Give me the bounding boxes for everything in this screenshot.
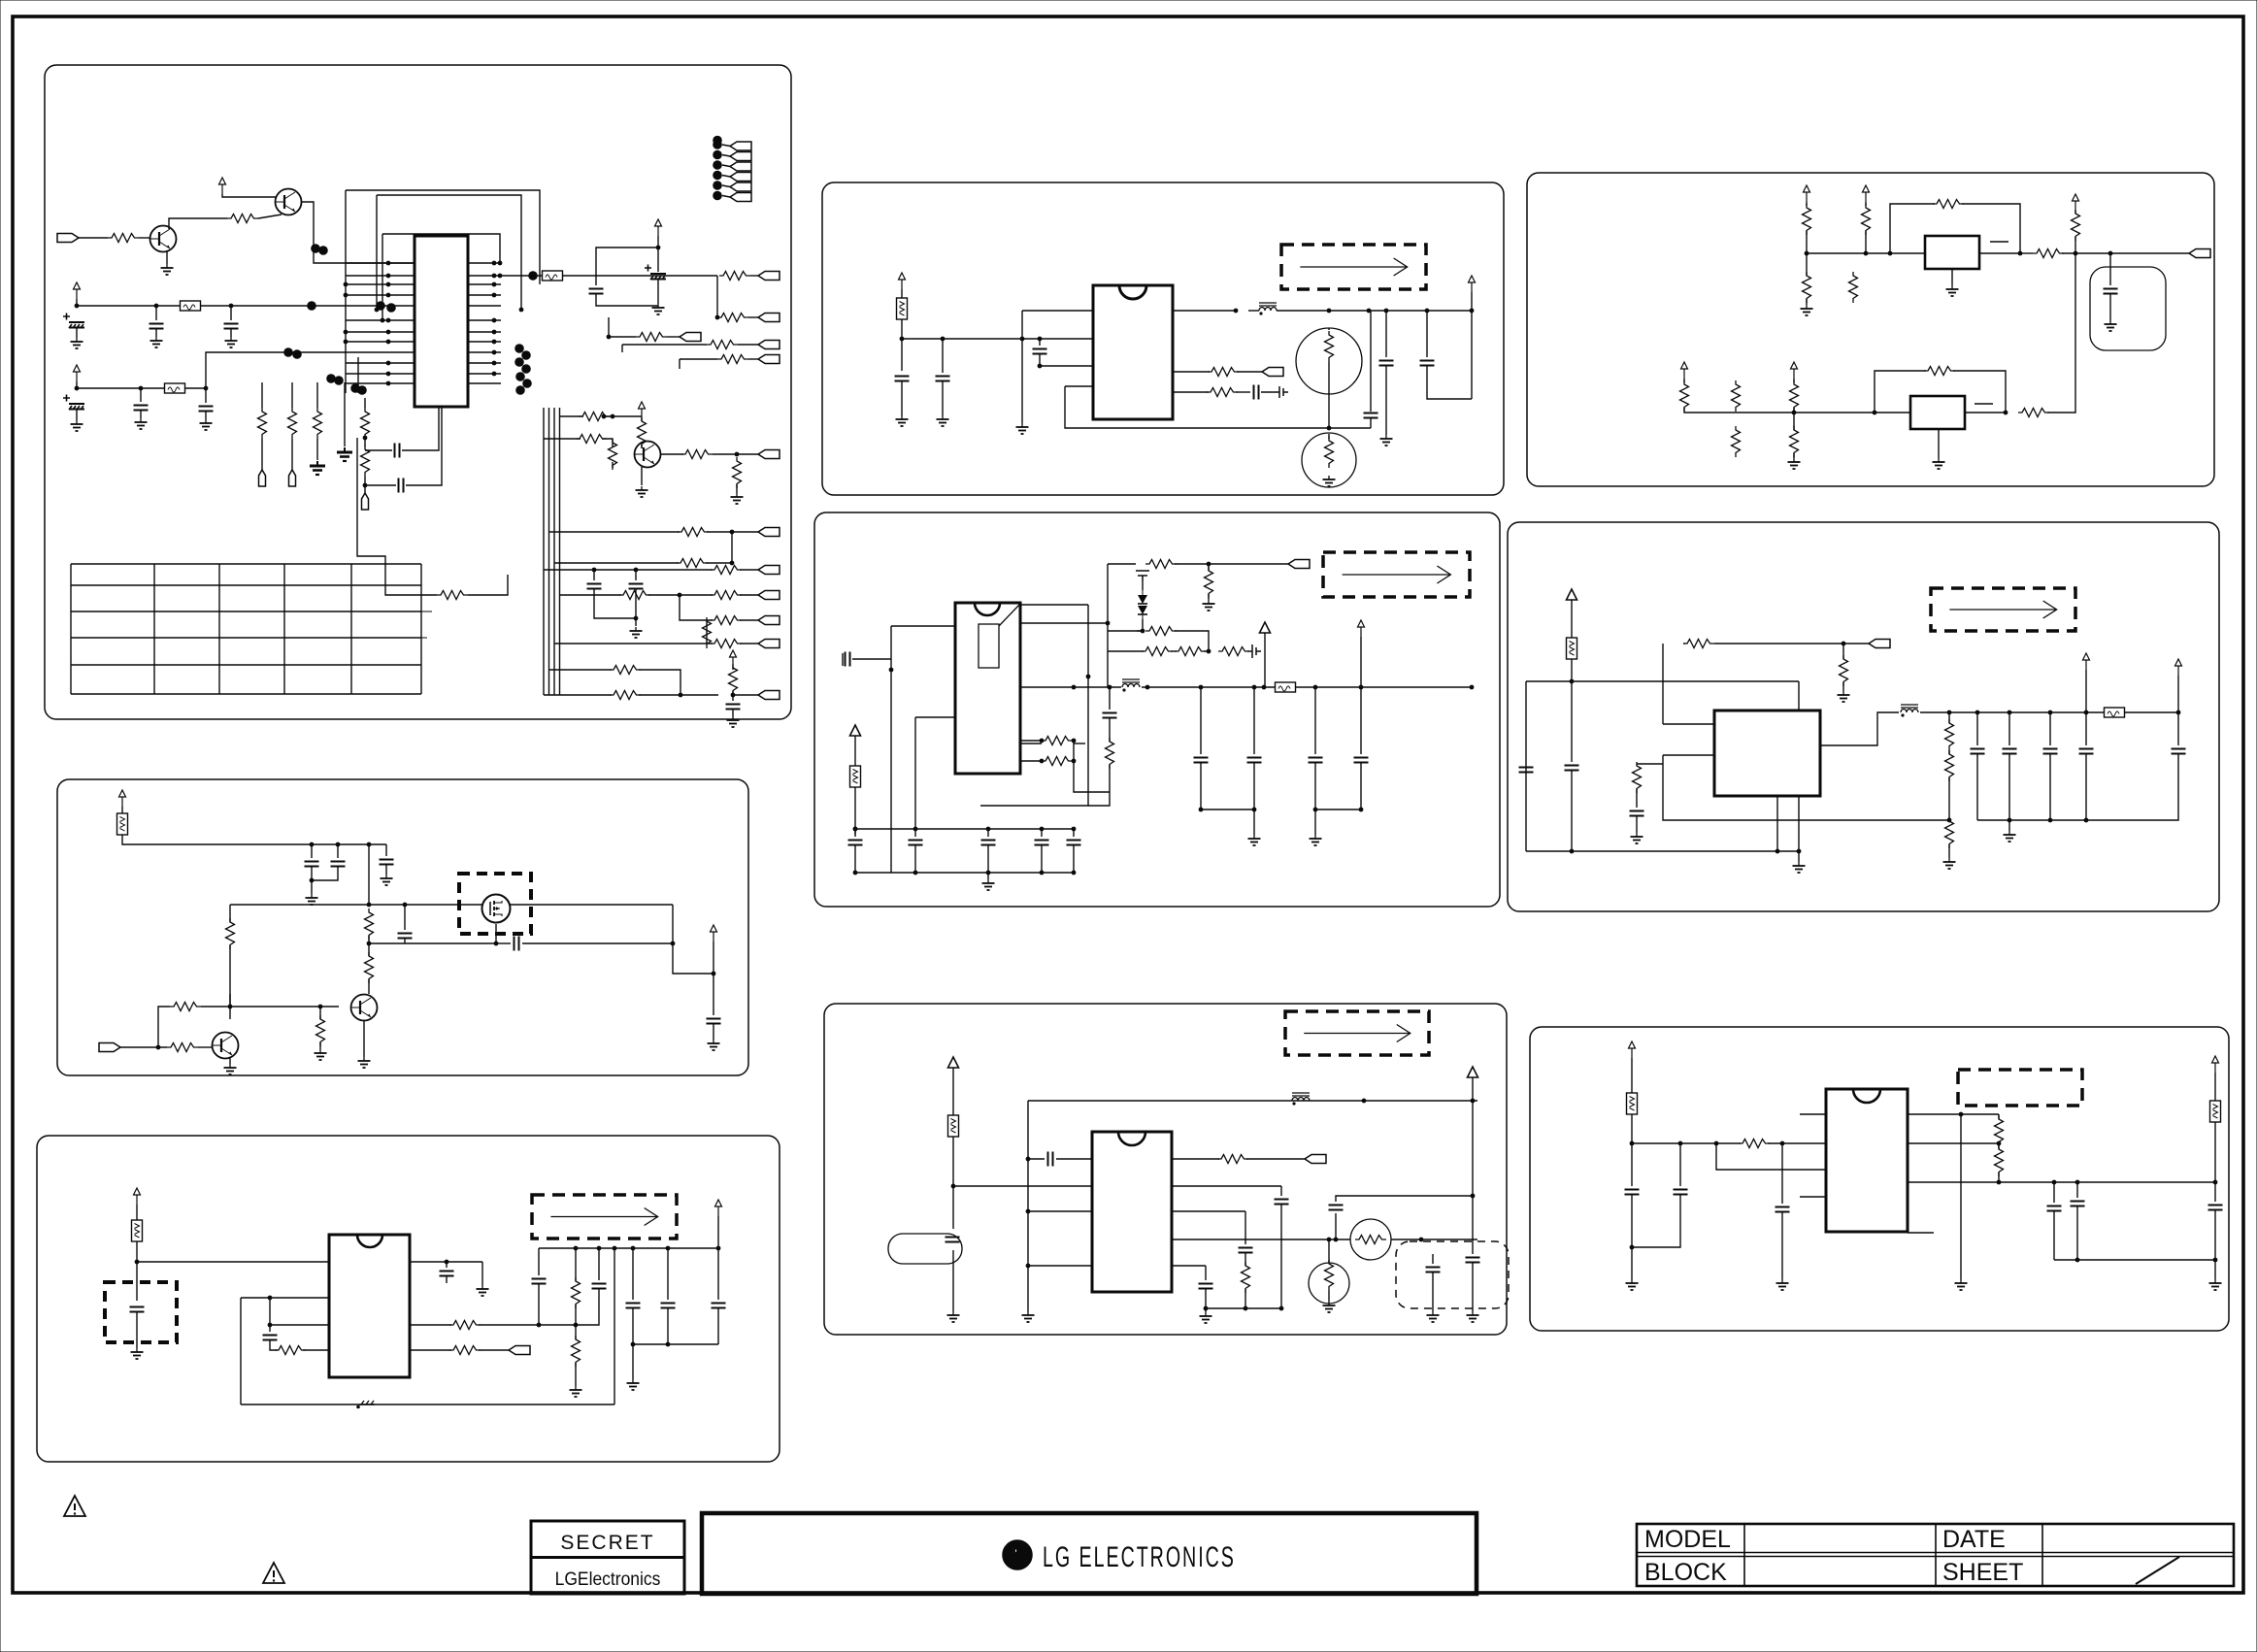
w — [575, 1363, 577, 1386]
wire row548 loop — [731, 532, 733, 563]
U301 tab mark — [1990, 241, 2008, 243]
block 7 outline (LDO section) — [37, 1136, 780, 1462]
ferrite bead FB102 — [165, 383, 185, 393]
junction rail4 x1402 — [1359, 685, 1364, 690]
w — [854, 829, 856, 837]
w — [639, 694, 718, 696]
resistor R111 — [361, 408, 370, 439]
resistor R602 — [365, 952, 374, 983]
junction th802 — [1327, 1238, 1332, 1242]
w — [136, 1312, 138, 1348]
junction pin 8 — [386, 340, 391, 345]
zener diode D401 — [1138, 590, 1147, 619]
junction l2 — [268, 1296, 273, 1301]
w — [1261, 391, 1279, 393]
w — [1109, 718, 1111, 742]
dashed arrow box blk8 — [1285, 1011, 1429, 1055]
w — [481, 1262, 483, 1285]
junction b8 — [951, 1184, 956, 1189]
power arrow VCC4 — [655, 219, 662, 236]
wire bottom loop to R505 — [1663, 764, 1949, 820]
capacitor C802 — [1048, 1152, 1053, 1167]
wire out row b — [1391, 1239, 1477, 1240]
w — [198, 1046, 212, 1048]
wire U101 right pin 24 — [468, 362, 501, 364]
junction lv1 d — [344, 340, 349, 345]
w — [538, 1284, 540, 1325]
w — [1631, 1058, 1633, 1093]
w — [1314, 763, 1316, 809]
junction pin 3 — [386, 274, 391, 279]
junction rail5 x2149 — [2084, 710, 2089, 715]
wire v1516 — [1471, 311, 1473, 399]
w — [667, 1308, 669, 1344]
w — [1385, 311, 1387, 357]
w — [319, 1042, 321, 1049]
wire U201 out — [1173, 310, 1236, 312]
wire R127v — [706, 621, 708, 644]
junction rail4 x1182 — [1145, 685, 1150, 690]
ground R312 — [1788, 458, 1801, 469]
wire R103 tab — [750, 275, 758, 277]
junction c906 — [2213, 1258, 2218, 1263]
w — [1137, 630, 1143, 632]
wire fb up — [158, 1007, 170, 1047]
w — [1571, 613, 1573, 638]
junction row716a — [679, 693, 683, 698]
resistor R304 — [2033, 249, 2064, 258]
w — [1793, 379, 1795, 382]
wire U701 pin l2 — [270, 1297, 329, 1299]
wire rail8 — [1028, 1100, 1477, 1102]
ground at Q101 — [161, 264, 174, 275]
junction blob E4 — [357, 385, 367, 395]
resistor R104 — [717, 314, 748, 322]
w — [736, 484, 738, 493]
junction f401 — [853, 827, 858, 832]
junction array 3 — [713, 160, 722, 170]
capacitor C406 — [1067, 841, 1081, 845]
capacitor C110 — [399, 479, 404, 493]
wire left v8 — [1027, 1101, 1029, 1266]
junction c601 — [310, 878, 315, 883]
w — [575, 1305, 577, 1325]
w — [1631, 1143, 1633, 1186]
junction rail4 x1355 — [1313, 685, 1318, 690]
wire fb2 right — [1953, 371, 2006, 413]
junction b9d — [1780, 1141, 1785, 1146]
IC U701 notch — [357, 1235, 382, 1247]
connector P115 — [730, 193, 751, 202]
ground col355 — [337, 447, 352, 461]
wire left stub vertical — [357, 357, 359, 393]
w — [1432, 1272, 1434, 1311]
w — [1073, 829, 1075, 837]
connector P112 — [730, 162, 751, 171]
junction outa — [1072, 685, 1077, 690]
w — [667, 1248, 669, 1300]
junction rail5 x2070 — [2008, 710, 2012, 715]
resistor R126 — [711, 640, 742, 648]
power arrow VCC20 — [119, 790, 126, 807]
resistor R409 — [1106, 738, 1114, 769]
wire row639 — [680, 595, 713, 620]
wire last cap join — [2086, 754, 2178, 820]
junction lv3 — [381, 318, 385, 323]
power arrow VCC1 — [219, 178, 226, 194]
wire row587a — [544, 569, 621, 571]
junction — [1359, 808, 1364, 812]
resistor R701 — [275, 1346, 306, 1355]
resistor R112 — [361, 446, 370, 477]
capacitor C108 — [589, 289, 604, 294]
inductor L801 — [1292, 1093, 1310, 1106]
junction c905 — [2075, 1258, 2080, 1263]
ground C107 — [652, 304, 665, 314]
capacitor C602 — [331, 862, 346, 867]
junction capb 1073 — [1040, 871, 1045, 876]
w — [1571, 771, 1573, 851]
wire fb to tab — [1714, 643, 1843, 644]
resistor R1 — [1849, 272, 1858, 303]
resistor R106 — [707, 341, 738, 349]
w — [987, 873, 989, 879]
resistor R130 — [729, 664, 738, 695]
power arrow VCC11 — [2073, 194, 2079, 211]
w — [1793, 453, 1795, 458]
wire col301 top — [291, 382, 293, 408]
junction — [1252, 808, 1257, 812]
wire U701 out top — [410, 1261, 482, 1263]
w — [1314, 687, 1316, 754]
w — [732, 691, 734, 695]
wire to U801 — [953, 1185, 1092, 1187]
power arrow VCC12 — [1681, 362, 1688, 379]
ground C205 — [1380, 435, 1393, 446]
w — [2074, 211, 2076, 214]
w — [1865, 202, 1867, 206]
w — [368, 936, 370, 956]
junction rail6 348 — [336, 843, 341, 847]
w — [634, 453, 635, 455]
w — [1781, 1212, 1783, 1279]
wire loop B over U101 — [377, 195, 521, 310]
wire c902 join — [1632, 1195, 1680, 1247]
w — [270, 1340, 278, 1350]
connector P103 — [758, 314, 780, 322]
junction pin dot — [492, 274, 497, 279]
junction blob G — [514, 344, 524, 353]
connector P105 — [758, 341, 780, 349]
wire q602 emitter — [363, 1020, 365, 1057]
junction outr2 — [1419, 1238, 1424, 1242]
w — [2085, 712, 2087, 745]
connector P401 — [1288, 560, 1310, 569]
w — [1948, 844, 1950, 858]
w — [311, 867, 313, 880]
capacitor C102 — [149, 324, 164, 329]
junction array 5 — [713, 181, 722, 190]
svg-text:DATE: DATE — [1942, 1526, 2006, 1553]
w — [2049, 712, 2051, 745]
junction blob G2 — [521, 350, 531, 360]
w — [1253, 809, 1255, 835]
junction r2a — [537, 1323, 542, 1328]
ground Q103 — [636, 486, 648, 497]
capacitor C301 — [2104, 289, 2118, 294]
wire VCC1 to Q102 — [222, 194, 276, 197]
ground C106 — [200, 419, 213, 430]
wire U101 left pin 9 — [346, 362, 415, 364]
junction b9c — [1714, 1141, 1719, 1146]
w — [1472, 1091, 1474, 1101]
w — [1793, 413, 1795, 430]
junction rail4 x1516 — [1470, 685, 1475, 690]
w — [1798, 851, 1800, 862]
junction array 6 — [713, 191, 722, 201]
wire bus v571 — [553, 408, 555, 695]
resistor R503 — [1633, 762, 1642, 793]
wire U801 pin l4 — [1028, 1265, 1092, 1267]
resistor R403 — [1145, 560, 1177, 569]
ground C903 — [1776, 1279, 1789, 1290]
wire U501 gnd2 — [1798, 796, 1800, 851]
resistor R302 — [1862, 204, 1871, 235]
capacitor C901 — [1625, 1190, 1640, 1195]
capacitor C601 — [305, 862, 319, 867]
wire v1141 tap — [1108, 630, 1143, 632]
svg-text:SECRET: SECRET — [560, 1532, 654, 1554]
wire capb rail2 — [1315, 809, 1361, 810]
capacitor C111 — [587, 584, 602, 589]
junction rail9o 2140 — [2075, 1180, 2080, 1185]
regulator U301 body — [1925, 236, 1979, 269]
junction pin dot — [492, 350, 497, 355]
power arrow VCC10 — [1863, 185, 1870, 202]
junction l8a — [1026, 1157, 1031, 1162]
w — [1998, 1142, 2000, 1143]
power arrow VCC16 — [1358, 620, 1365, 637]
capacitor C906 — [2208, 1206, 2223, 1210]
power arrow VCC7 — [899, 273, 906, 289]
wire U101 right pin 21 — [468, 331, 501, 333]
junction th bottom — [1327, 426, 1332, 431]
resistor R113 — [437, 591, 468, 600]
wire R106 tab — [738, 344, 758, 346]
resistor R704 — [572, 1277, 581, 1308]
capacitor C205 — [1379, 361, 1394, 366]
resistor R308 — [1680, 380, 1689, 412]
wire array 4 — [722, 176, 730, 178]
ground R404 — [1203, 600, 1215, 611]
capacitor C606 — [707, 1019, 721, 1024]
resistor R117 — [609, 439, 617, 470]
wire capb rail — [1201, 809, 1254, 810]
w — [1842, 644, 1844, 659]
wire row347 — [609, 336, 636, 338]
w — [446, 1262, 448, 1268]
w — [854, 829, 856, 835]
w — [1245, 1289, 1246, 1308]
resistor R103 — [719, 272, 750, 281]
ground C301 — [2105, 320, 2117, 331]
capacitor C703 — [440, 1272, 454, 1276]
connector P111 — [730, 152, 751, 161]
junction blob E3 — [350, 383, 360, 393]
ground R606 — [315, 1049, 327, 1060]
w — [1247, 650, 1252, 652]
junction xtal B — [363, 483, 368, 488]
junction capb5 2149 — [2084, 818, 2089, 823]
wire U501 gnd1 — [1776, 796, 1778, 851]
block 5 outline (DC-DC section) — [1508, 522, 2219, 911]
wire row581b — [1175, 563, 1288, 565]
junction v1141 tap — [1106, 621, 1111, 626]
junction array 4 — [713, 171, 722, 181]
wire r409 down — [1088, 765, 1110, 806]
dashed MOSFET box — [459, 874, 531, 934]
wire to Q604 — [320, 1006, 339, 1008]
wire right v — [672, 905, 674, 943]
junction r401a — [1040, 739, 1045, 743]
junction rail8b — [1471, 1099, 1476, 1104]
capacitor C704 — [532, 1279, 547, 1284]
fuse F201 — [897, 298, 908, 319]
fuse F601 — [117, 813, 128, 835]
resistor R201 — [1208, 368, 1239, 377]
capacitor C202 — [936, 377, 950, 381]
w — [1073, 845, 1075, 873]
wire rail9 a — [1632, 1142, 1741, 1144]
w — [740, 643, 758, 644]
capacitor C206 — [1420, 361, 1435, 366]
wire C110 to U101 — [406, 407, 442, 485]
w — [1793, 408, 1795, 413]
fuse F901 — [1627, 1093, 1638, 1114]
w — [1636, 816, 1638, 833]
junction r401b — [1072, 739, 1077, 743]
junction pin dot — [492, 293, 497, 298]
wire U201 pin r3 — [1173, 391, 1209, 393]
junction capr 1073 — [1040, 827, 1045, 832]
ground U302 — [1933, 458, 1945, 469]
w — [987, 845, 989, 873]
ground TH802 — [1323, 1302, 1336, 1312]
junction row580 — [730, 561, 735, 566]
w — [2214, 1073, 2216, 1101]
wire left loop v — [240, 1298, 242, 1404]
wire bottom loop7 — [241, 1404, 614, 1405]
resistor R202 — [1207, 388, 1238, 397]
junction — [1313, 808, 1318, 812]
junction rail6 321 — [310, 843, 315, 847]
junction capb5 2070 — [2008, 818, 2012, 823]
w — [952, 1186, 954, 1229]
wire U302 gnd — [1938, 429, 1940, 458]
ground C808 — [1427, 1311, 1440, 1322]
junction capr 881 — [853, 827, 858, 832]
junction r2b — [574, 1323, 579, 1328]
wire to C106 — [205, 388, 207, 403]
power arrow VCC15 — [1260, 622, 1271, 646]
w — [1219, 650, 1221, 652]
ground v1053 — [1016, 423, 1029, 434]
junction q col — [367, 903, 372, 908]
connector P501 — [1869, 640, 1890, 648]
w — [632, 1308, 634, 1379]
wire array 1 — [722, 145, 730, 147]
power arrow VCC27 — [2212, 1056, 2219, 1073]
resistor R401 — [1042, 737, 1073, 745]
wire cap bottom rail — [1977, 819, 2086, 821]
w — [2049, 754, 2051, 820]
junction b8r3 — [1204, 1306, 1209, 1311]
wire row690 loop — [639, 670, 680, 695]
wire array 5 — [722, 185, 730, 187]
junction b8r — [1279, 1306, 1284, 1311]
model/date title table — [1637, 1524, 2234, 1586]
junction c203 top — [1038, 337, 1043, 342]
w — [1109, 687, 1111, 710]
w — [740, 594, 758, 596]
capacitor C902 — [1674, 1190, 1688, 1195]
w — [2214, 1182, 2216, 1202]
capacitor C112 — [629, 584, 644, 589]
wire mosfet source — [495, 924, 497, 943]
w — [1385, 366, 1387, 435]
connector P201 — [1262, 368, 1283, 377]
wire C101 to gnd — [76, 328, 78, 338]
wire U101 right pin 17 — [468, 283, 501, 285]
w — [1948, 777, 1950, 820]
junction rail6 380 — [367, 843, 372, 847]
block 2 outline (regulator section) — [822, 182, 1504, 495]
wire U101 right pin 15 — [468, 262, 501, 264]
wire C105 gnd — [140, 411, 142, 418]
resistor R404 — [1205, 567, 1213, 598]
junction lv1 a — [344, 282, 349, 287]
w — [612, 462, 614, 468]
w — [1041, 829, 1043, 837]
capacitor C208 (stub) — [1279, 386, 1288, 398]
junction rail2-C103 — [229, 304, 234, 309]
resistor R601 — [365, 909, 374, 940]
wire c705 join — [576, 1289, 599, 1325]
w — [1314, 809, 1316, 835]
w — [1041, 845, 1043, 873]
ground TH202 — [1323, 476, 1336, 486]
wire VCC2 rail — [77, 299, 415, 306]
w — [121, 807, 123, 813]
capacitor C507 — [2079, 749, 2094, 754]
w — [717, 1248, 719, 1300]
w — [1998, 1173, 2000, 1182]
resistor R1010 — [314, 408, 322, 439]
wire q603 collector — [229, 994, 231, 1007]
junction c901 — [1630, 1245, 1635, 1250]
wire U301 out — [1979, 252, 2020, 254]
junction rail7 740 — [716, 1246, 721, 1251]
resistor R408 — [1218, 647, 1249, 656]
w — [1028, 1158, 1045, 1160]
w — [1200, 687, 1202, 754]
capacitor C204 — [1364, 413, 1378, 418]
battery capsule — [888, 1234, 962, 1264]
w — [717, 1216, 719, 1248]
w — [575, 1248, 577, 1281]
junction capr 943 — [913, 827, 918, 832]
thermistor TH802 (circle w/ resistor) — [1309, 1263, 1349, 1304]
